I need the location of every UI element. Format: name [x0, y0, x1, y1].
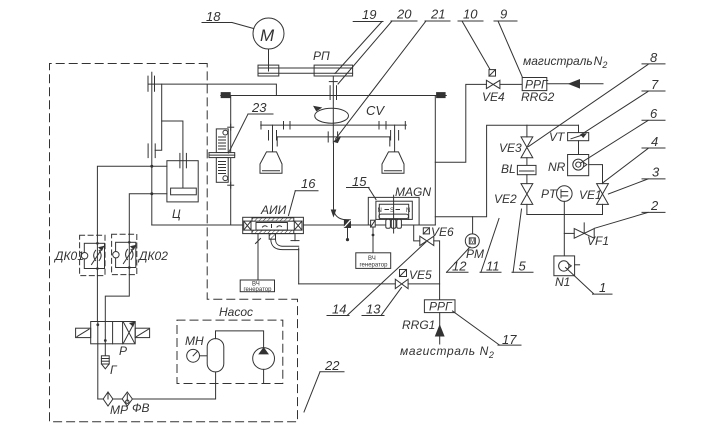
leader 6 [581, 106, 666, 163]
leader 1 [566, 268, 613, 296]
svg-text:19: 19 [362, 7, 376, 22]
hydraulic cylinder C [167, 161, 198, 202]
junction dot [150, 192, 153, 195]
leader 14 [327, 242, 426, 317]
belt drive RP left pulley [258, 65, 279, 76]
line MR to FV [113, 398, 122, 400]
svg-text:8: 8 [650, 50, 658, 65]
svg-text:VE6: VE6 [431, 225, 454, 239]
svg-text:MAGN: MAGN [395, 185, 431, 199]
svg-text:VF1: VF1 [587, 234, 609, 248]
svg-text:CV: CV [366, 103, 385, 118]
svg-text:VE1: VE1 [579, 188, 602, 202]
left evaporator bell [260, 152, 282, 173]
leader 15 [347, 174, 377, 200]
AII electrode wire to HF generator [256, 234, 261, 280]
svg-text:20: 20 [396, 7, 412, 22]
forevacuum manifold [527, 214, 603, 216]
svg-text:11: 11 [486, 259, 500, 274]
shutter drive rod below turntable [331, 143, 346, 220]
pipe accumulator to pump [216, 331, 264, 348]
svg-text:22: 22 [324, 358, 340, 373]
drain to muffler G [104, 344, 106, 356]
N2 line into chamber via VE4 [435, 84, 486, 162]
gauge unit 23 on chamber wall [209, 124, 235, 188]
cylinder port line 1 [97, 166, 166, 235]
magnetron target tabs [386, 219, 402, 228]
svg-text:VE5: VE5 [409, 268, 432, 282]
pipe VE6 to gas junction [434, 241, 440, 300]
belt drive RP right pulley [314, 65, 353, 76]
leader 16 [289, 176, 319, 216]
magnetron body [376, 201, 412, 219]
svg-text:генератор: генератор [244, 287, 273, 293]
svg-text:ДК02: ДК02 [137, 249, 168, 263]
lower seal [148, 144, 155, 158]
wire magnetron to HF generator [372, 227, 375, 253]
svg-text:PT: PT [541, 187, 558, 201]
leak valve NR [568, 141, 589, 176]
svg-text:М: М [260, 26, 275, 45]
gas flow regulator RRG2 [522, 78, 549, 92]
svg-text:магистральN2: магистральN2 [523, 54, 607, 70]
svg-text:VE3: VE3 [499, 141, 522, 155]
top plate clamp left [221, 93, 230, 98]
gas feed tube from AII [271, 239, 299, 284]
magnetron feed box [371, 220, 376, 227]
left hanger rod with coupling [269, 125, 277, 152]
svg-text:М: М [470, 239, 475, 245]
leader 17 [453, 311, 522, 347]
svg-text:РРГ: РРГ [429, 300, 453, 314]
rotation arrow ellipse [314, 107, 349, 124]
N2 supply arrow bottom [436, 313, 444, 344]
pump [253, 348, 275, 384]
svg-text:12: 12 [452, 259, 467, 274]
HF generator box (AII) [240, 280, 274, 293]
svg-text:RRG1: RRG1 [402, 318, 435, 332]
leaders 19 20 21 10 9 [335, 7, 383, 74]
belt lines [258, 67, 353, 69]
valve VE1 [597, 184, 609, 215]
svg-text:Ц: Ц [172, 207, 181, 221]
svg-text:9: 9 [500, 7, 507, 22]
svg-text:Насос: Насос [219, 305, 253, 319]
wire below actuator [346, 228, 349, 242]
svg-text:VE2: VE2 [494, 192, 517, 206]
pipe manifold down to N1 [563, 215, 565, 256]
ion source AII [243, 217, 304, 233]
filter MR [103, 392, 113, 406]
leader 7 [582, 77, 665, 134]
vacuum panel riser and top line [435, 125, 578, 217]
svg-text:РП: РП [313, 49, 330, 63]
leader 11 [480, 219, 501, 274]
svg-text:RRG2: RRG2 [521, 90, 555, 104]
svg-text:BL: BL [501, 162, 516, 176]
valve VE3 [521, 125, 533, 165]
svg-text:21: 21 [430, 7, 445, 22]
svg-text:7: 7 [651, 77, 659, 92]
throttle check valve DK02 [112, 234, 137, 274]
chamber CV top plate [221, 95, 447, 97]
right evaporator bell [382, 152, 404, 173]
svg-text:23: 23 [251, 100, 267, 115]
air admittance valve VF1 [564, 223, 594, 238]
leader 5 [512, 209, 533, 274]
pipe VE5 to junction [408, 283, 440, 285]
valve VE6 [420, 228, 434, 246]
svg-text:NR: NR [548, 160, 566, 174]
chamber floor line [152, 224, 436, 226]
leader 2 [594, 198, 665, 228]
drain line to suction [97, 344, 99, 399]
svg-text:2: 2 [650, 198, 659, 213]
pipe VE4 to RRG2 [500, 83, 522, 85]
svg-text:Р: Р [119, 344, 127, 358]
HF generator box (MAGN) [356, 253, 391, 269]
filter FV [122, 392, 132, 406]
pump unit dashed box [177, 320, 283, 383]
turntable upper bar with clamps [261, 122, 407, 130]
leader 3 [608, 165, 665, 195]
right hanger rod with coupling [391, 125, 399, 152]
svg-text:АИИ: АИИ [260, 203, 287, 217]
leader 8 [529, 50, 666, 147]
left solenoid [76, 328, 91, 337]
spindle shaft from pulley into chamber [329, 76, 337, 143]
chamber left wall [230, 96, 232, 226]
trap BL [517, 165, 536, 174]
accumulator [207, 339, 224, 372]
svg-text:15: 15 [352, 174, 367, 189]
shutter actuator block [344, 220, 350, 228]
motor M (electric drive) [253, 18, 284, 49]
leader 13 [362, 288, 402, 317]
leader 18 [202, 9, 254, 29]
svg-text:10: 10 [463, 7, 478, 22]
svg-text:14: 14 [332, 302, 346, 317]
svg-text:3: 3 [652, 165, 660, 180]
gas pipe to VE5 [299, 283, 396, 285]
valve VT [568, 125, 589, 141]
cylinder port line 2 [129, 194, 167, 234]
svg-text:ВЧ: ВЧ [368, 256, 376, 262]
wire PM drop [472, 217, 474, 234]
AII gas inlet block [269, 234, 275, 240]
drive link line [148, 84, 276, 95]
valve VE5 [395, 270, 408, 289]
svg-text:1: 1 [599, 280, 606, 295]
valve VE2 [521, 175, 533, 215]
leader 23 [229, 100, 274, 153]
N2 supply line with arrow [547, 80, 603, 88]
cylinder rod seal [180, 153, 187, 167]
svg-text:N: N [378, 208, 382, 214]
suction line [98, 398, 103, 400]
svg-text:5: 5 [519, 259, 527, 274]
svg-text:N: N [406, 208, 410, 214]
leader 12 [447, 247, 471, 274]
gauge PT [557, 186, 573, 215]
throttle check valve DK01 [80, 235, 105, 275]
gas flow regulator RRG1 [424, 300, 455, 314]
chamber right wall [434, 96, 436, 226]
wire motor to pulley [268, 49, 270, 71]
leader 4 [603, 134, 666, 183]
chamber drive linkage top seal [148, 76, 155, 91]
pipes DK to valve R [96, 276, 98, 322]
top plate clamp right [437, 93, 446, 98]
magnetron MAGN bracket [368, 197, 419, 224]
chamber tap to VE6 [414, 225, 420, 241]
directional valve R [91, 322, 136, 344]
valve VE4 [486, 70, 500, 89]
AII right electrode stub [291, 234, 299, 241]
suction pipe to pump unit [132, 372, 215, 399]
gauge MN [185, 334, 207, 362]
svg-text:13: 13 [366, 302, 381, 317]
svg-text:N1: N1 [555, 275, 570, 289]
pipe NR to VE1 [589, 165, 603, 184]
svg-text:генератор: генератор [360, 263, 389, 269]
svg-text:VT: VT [549, 130, 566, 144]
junction dot [150, 165, 153, 168]
right solenoid [135, 328, 149, 337]
fore pump N1 [554, 256, 580, 276]
svg-text:18: 18 [206, 9, 221, 24]
svg-text:4: 4 [651, 134, 658, 149]
muffler G [101, 356, 109, 369]
magnetron center line [393, 195, 395, 233]
svg-text:магистраль N2: магистраль N2 [400, 344, 494, 360]
leader 22 [304, 358, 344, 412]
outer dashed enclosure boundary [50, 64, 298, 422]
branch to cylinder rod [162, 121, 183, 188]
svg-text:Г: Г [110, 363, 118, 377]
secondary link rod [155, 84, 162, 150]
svg-text:16: 16 [301, 176, 316, 191]
svg-text:VE4: VE4 [482, 90, 505, 104]
drive rod [151, 72, 153, 225]
svg-text:МН: МН [185, 334, 204, 348]
svg-text:МР: МР [110, 403, 128, 417]
turntable lower bar [277, 132, 390, 146]
svg-text:ФВ: ФВ [132, 401, 150, 415]
svg-text:ДК01: ДК01 [53, 249, 84, 263]
svg-text:6: 6 [650, 106, 658, 121]
gauge PM [465, 234, 479, 248]
